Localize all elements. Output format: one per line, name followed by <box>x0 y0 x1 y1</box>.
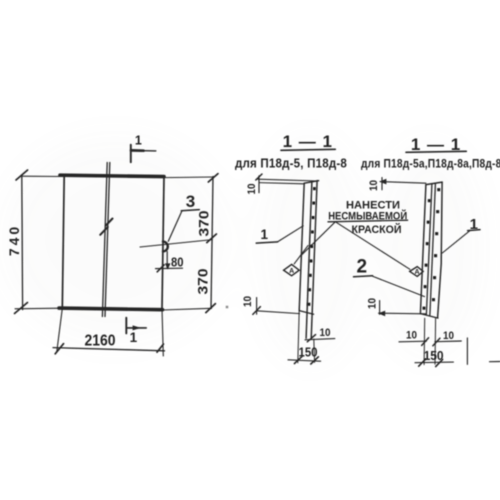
svg-text:1 — 1: 1 — 1 <box>411 135 461 154</box>
svg-text:10: 10 <box>368 180 380 191</box>
svg-text:150: 150 <box>299 346 318 360</box>
svg-text:НЕСМЫВАЕМОЙ: НЕСМЫВАЕМОЙ <box>328 210 407 223</box>
svg-text:2160: 2160 <box>85 333 116 350</box>
svg-text:1: 1 <box>470 216 478 233</box>
svg-text:150: 150 <box>424 349 444 363</box>
svg-text:1: 1 <box>260 227 268 242</box>
svg-text:10: 10 <box>246 183 258 194</box>
svg-text:80: 80 <box>171 256 184 270</box>
svg-text:10: 10 <box>367 298 379 309</box>
svg-text:для П18д-5, П18д-8: для П18д-5, П18д-8 <box>235 157 347 171</box>
svg-text:А: А <box>414 269 419 276</box>
svg-text:1: 1 <box>135 134 142 148</box>
svg-text:10: 10 <box>242 296 254 307</box>
svg-text:КРАСКОЙ: КРАСКОЙ <box>352 223 402 236</box>
svg-text:10: 10 <box>443 330 454 342</box>
svg-text:НАНЕСТИ: НАНЕСТИ <box>346 199 400 211</box>
svg-text:3: 3 <box>186 192 195 211</box>
svg-text:А: А <box>289 268 294 275</box>
svg-text:1 — 1: 1 — 1 <box>283 132 333 151</box>
svg-text:370: 370 <box>196 210 212 236</box>
svg-text:2: 2 <box>357 257 368 278</box>
svg-text:740: 740 <box>6 224 22 256</box>
svg-text:10: 10 <box>406 330 417 342</box>
svg-text:1: 1 <box>130 330 138 345</box>
svg-text:для П18д-5а,П18д-8а,П8д-8б: для П18д-5а,П18д-8а,П8д-8б <box>361 157 500 171</box>
svg-text:10: 10 <box>320 327 331 339</box>
svg-text:370: 370 <box>194 268 210 294</box>
